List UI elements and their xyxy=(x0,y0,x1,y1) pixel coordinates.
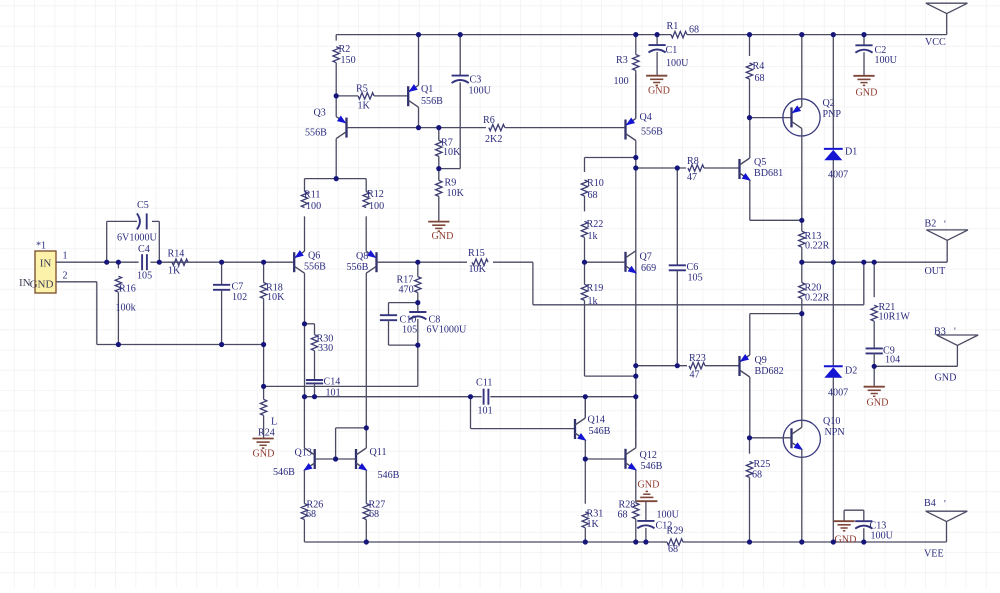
svg-text:PNP: PNP xyxy=(823,109,842,120)
svg-text:C5: C5 xyxy=(137,200,149,211)
svg-text:GND: GND xyxy=(253,448,275,459)
svg-text:B4: B4 xyxy=(924,498,936,509)
svg-text:105: 105 xyxy=(402,324,417,335)
svg-text:100: 100 xyxy=(614,76,629,87)
svg-text:R8: R8 xyxy=(687,156,699,167)
svg-text:1K: 1K xyxy=(358,100,371,111)
svg-text:GND: GND xyxy=(638,480,660,491)
svg-text:4007: 4007 xyxy=(828,170,848,181)
svg-text:': ' xyxy=(954,326,956,337)
svg-text:546B: 546B xyxy=(378,470,400,481)
svg-text:GND: GND xyxy=(867,398,889,409)
svg-text:R15: R15 xyxy=(468,248,485,259)
svg-text:C14: C14 xyxy=(324,377,341,388)
svg-text:10K: 10K xyxy=(443,147,461,158)
svg-text:68: 68 xyxy=(369,509,379,520)
svg-text:68: 68 xyxy=(689,24,699,35)
svg-text:R4: R4 xyxy=(753,61,765,72)
svg-text:R5: R5 xyxy=(356,84,368,95)
svg-text:330: 330 xyxy=(318,343,333,354)
svg-text:546B: 546B xyxy=(641,461,663,472)
svg-text:10R1W: 10R1W xyxy=(879,312,911,323)
svg-text:Q14: Q14 xyxy=(588,414,605,425)
svg-text:GND: GND xyxy=(30,279,54,291)
svg-text:1: 1 xyxy=(63,250,68,261)
svg-text:GND: GND xyxy=(432,231,454,242)
svg-text:546B: 546B xyxy=(273,467,295,478)
svg-text:R22: R22 xyxy=(587,219,604,230)
svg-text:10K: 10K xyxy=(267,292,285,303)
svg-text:10K: 10K xyxy=(469,264,487,275)
svg-text:C11: C11 xyxy=(476,378,492,389)
svg-text:R3: R3 xyxy=(616,55,628,66)
svg-text:100U: 100U xyxy=(875,55,898,66)
svg-text:Q5: Q5 xyxy=(754,157,766,168)
svg-text:47: 47 xyxy=(687,172,697,183)
svg-text:105: 105 xyxy=(688,273,703,284)
svg-text:556B: 556B xyxy=(304,261,326,272)
svg-text:0.22R: 0.22R xyxy=(805,293,830,304)
svg-text:556B: 556B xyxy=(421,96,443,107)
svg-text:Q11: Q11 xyxy=(370,447,387,458)
svg-text:0.22R: 0.22R xyxy=(805,241,830,252)
svg-text:556B: 556B xyxy=(641,126,663,137)
svg-text:BD681: BD681 xyxy=(754,168,783,179)
svg-text:105: 105 xyxy=(137,271,152,282)
svg-text:R2: R2 xyxy=(339,44,351,55)
svg-text:100U: 100U xyxy=(871,530,894,541)
svg-text:R23: R23 xyxy=(689,353,706,364)
svg-text:BD682: BD682 xyxy=(755,366,784,377)
svg-text:2: 2 xyxy=(63,270,68,281)
svg-text:GND: GND xyxy=(856,88,878,99)
svg-text:100U: 100U xyxy=(666,58,689,69)
svg-text:R9: R9 xyxy=(445,178,457,189)
svg-text:C6: C6 xyxy=(687,262,699,273)
svg-text:NPN: NPN xyxy=(825,427,846,438)
svg-text:R12: R12 xyxy=(367,189,384,200)
svg-text:Q4: Q4 xyxy=(640,112,652,123)
svg-text:Q10: Q10 xyxy=(823,416,840,427)
svg-text:546B: 546B xyxy=(589,426,611,437)
svg-text:68: 68 xyxy=(668,544,678,555)
svg-text:L: L xyxy=(271,417,277,428)
svg-text:VEE: VEE xyxy=(924,549,944,560)
svg-text:R16: R16 xyxy=(119,283,136,294)
svg-text:R31: R31 xyxy=(587,509,604,520)
svg-text:68: 68 xyxy=(588,190,598,201)
svg-text:R10: R10 xyxy=(587,178,604,189)
svg-text:C1: C1 xyxy=(666,45,678,56)
svg-text:R24: R24 xyxy=(258,428,275,439)
svg-text:2K2: 2K2 xyxy=(485,134,502,145)
svg-text:Q12: Q12 xyxy=(640,450,657,461)
svg-text:556B: 556B xyxy=(305,127,327,138)
svg-text:R1: R1 xyxy=(667,21,679,32)
svg-text:B3: B3 xyxy=(934,326,946,337)
svg-text:Q7: Q7 xyxy=(640,251,652,262)
svg-text:Q13: Q13 xyxy=(295,448,312,459)
svg-text:68: 68 xyxy=(618,510,628,521)
svg-text:IN: IN xyxy=(40,258,52,270)
svg-text:470: 470 xyxy=(399,285,414,296)
svg-text:IN: IN xyxy=(19,277,31,289)
svg-text:B2: B2 xyxy=(925,219,937,230)
svg-text:Q6: Q6 xyxy=(308,251,320,262)
svg-text:R14: R14 xyxy=(168,248,185,259)
svg-text:OUT: OUT xyxy=(925,266,946,277)
svg-text:6V1000U: 6V1000U xyxy=(427,324,468,335)
svg-text:R11: R11 xyxy=(304,190,320,201)
svg-text:GND: GND xyxy=(648,86,670,97)
svg-text:R19: R19 xyxy=(587,283,604,294)
svg-text:68: 68 xyxy=(752,470,762,481)
svg-text:68: 68 xyxy=(306,509,316,520)
svg-text:100: 100 xyxy=(369,201,384,212)
svg-text:100: 100 xyxy=(306,201,321,212)
svg-text:669: 669 xyxy=(641,263,656,274)
svg-text:GND: GND xyxy=(935,373,957,384)
svg-text:R6: R6 xyxy=(483,115,495,126)
svg-text:100U: 100U xyxy=(469,86,492,97)
svg-text:C3: C3 xyxy=(470,75,482,86)
svg-text:R29: R29 xyxy=(667,525,684,536)
svg-text:Q1: Q1 xyxy=(421,84,433,95)
svg-text:R25: R25 xyxy=(754,459,771,470)
svg-text:VCC: VCC xyxy=(925,37,946,48)
svg-text:D2: D2 xyxy=(845,365,857,376)
svg-text:*1: *1 xyxy=(36,241,46,252)
svg-text:104: 104 xyxy=(885,355,900,366)
svg-text:10K: 10K xyxy=(447,188,465,199)
svg-text:1k: 1k xyxy=(588,231,599,242)
svg-text:150: 150 xyxy=(341,55,356,66)
svg-text:Q3: Q3 xyxy=(314,107,326,118)
svg-text:1K: 1K xyxy=(168,265,181,276)
svg-text:556B: 556B xyxy=(347,262,369,273)
svg-text:4007: 4007 xyxy=(828,388,848,399)
svg-text:68: 68 xyxy=(755,73,765,84)
svg-text:100k: 100k xyxy=(116,303,137,314)
svg-text:D1: D1 xyxy=(845,147,857,158)
svg-text:1K: 1K xyxy=(587,519,600,530)
svg-text:102: 102 xyxy=(232,292,247,303)
svg-text:Q8: Q8 xyxy=(356,251,368,262)
svg-text:': ' xyxy=(944,499,946,510)
svg-text:100U: 100U xyxy=(657,510,680,521)
svg-text:6V1000U: 6V1000U xyxy=(117,232,158,243)
svg-text:Q9: Q9 xyxy=(755,355,767,366)
svg-text:101: 101 xyxy=(478,406,493,417)
svg-text:GND: GND xyxy=(835,534,857,545)
svg-text:C4: C4 xyxy=(138,244,150,255)
svg-text:': ' xyxy=(944,219,946,230)
svg-text:47: 47 xyxy=(690,370,700,381)
